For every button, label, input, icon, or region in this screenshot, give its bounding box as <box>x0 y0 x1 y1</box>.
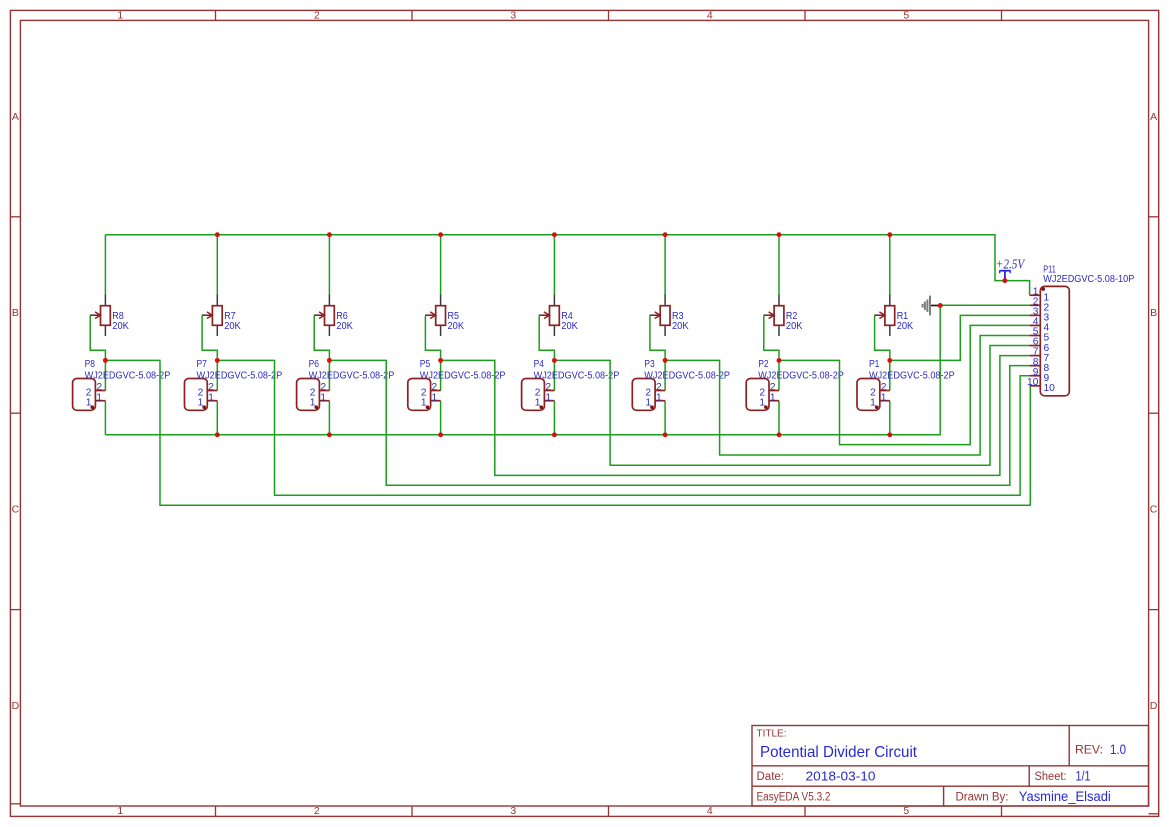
svg-text:1: 1 <box>198 398 204 409</box>
svg-text:B: B <box>1150 307 1157 319</box>
connector P3 <box>632 379 665 411</box>
pin numbers P11 <box>1027 286 1055 394</box>
wire R5 wiper to junction <box>425 316 440 361</box>
svg-text:A: A <box>1150 111 1157 123</box>
resistor R5 <box>425 295 446 337</box>
svg-text:5: 5 <box>903 9 909 21</box>
junction node col 5 <box>438 358 443 363</box>
svg-text:2: 2 <box>314 805 320 817</box>
resistor R4 <box>539 295 560 337</box>
svg-text:1: 1 <box>881 392 887 403</box>
resistor R6 <box>314 295 335 337</box>
pin numbers P5 <box>421 382 438 409</box>
wire R6 wiper to junction <box>314 316 329 361</box>
svg-text:P1: P1 <box>869 359 880 370</box>
svg-text:10: 10 <box>1027 377 1039 388</box>
svg-text:C: C <box>1150 504 1158 516</box>
svg-text:+2.5V: +2.5V <box>996 256 1026 271</box>
svg-text:1: 1 <box>432 392 438 403</box>
resistor R8 <box>90 295 111 337</box>
wire P2 junction to P11 pin 4 <box>779 325 1030 444</box>
svg-text:B: B <box>12 307 19 319</box>
resistor R7 <box>202 295 223 337</box>
wire junction to P1 pin2 <box>889 360 891 390</box>
connector P4 <box>522 379 555 411</box>
svg-text:Date:: Date: <box>757 771 785 783</box>
svg-text:P4: P4 <box>534 359 545 370</box>
junction node ground bus col 3 <box>663 432 668 437</box>
wire P2 pin1 to ground bus <box>778 401 780 435</box>
wire +2.5V top bus <box>105 235 1029 296</box>
wire junction to P2 pin2 <box>778 360 780 390</box>
svg-text:WJ2EDGVC-5.08-2P: WJ2EDGVC-5.08-2P <box>197 370 283 381</box>
svg-text:20K: 20K <box>224 321 241 332</box>
svg-text:WJ2EDGVC-5.08-2P: WJ2EDGVC-5.08-2P <box>309 370 395 381</box>
junction node +2.5V <box>1002 278 1007 283</box>
wire top bus to R7 <box>216 235 218 295</box>
junction node top bus col 3 <box>663 232 668 237</box>
pin numbers P7 <box>198 382 215 409</box>
svg-text:1: 1 <box>645 398 651 409</box>
wire P4 pin1 to ground bus <box>553 401 555 435</box>
pin numbers P3 <box>645 382 662 409</box>
wire P7 pin1 to ground bus <box>216 401 218 435</box>
svg-text:1: 1 <box>117 805 123 817</box>
junction node ground bus col 6 <box>327 432 332 437</box>
junction node top bus col 4 <box>552 232 557 237</box>
connector P1 <box>857 379 890 411</box>
svg-text:REV:: REV: <box>1075 743 1103 757</box>
pin numbers P1 <box>870 382 887 409</box>
wire top bus to R4 <box>553 235 555 295</box>
svg-text:1: 1 <box>96 392 102 403</box>
wire P6 junction to P11 pin 8 <box>329 360 1029 485</box>
wire top bus to R1 <box>889 235 891 295</box>
junction node top bus col 6 <box>327 232 332 237</box>
resistor R1 <box>874 295 895 337</box>
svg-text:1: 1 <box>117 9 123 21</box>
junction node col 2 <box>777 358 782 363</box>
wire R2 wiper to junction <box>764 316 779 361</box>
connector P8 <box>73 379 106 411</box>
wire junction to P7 pin2 <box>216 360 218 390</box>
svg-text:2018-03-10: 2018-03-10 <box>806 769 876 784</box>
svg-text:Yasmine_Elsadi: Yasmine_Elsadi <box>1019 789 1111 804</box>
wire R8 wiper to junction <box>90 316 105 361</box>
svg-text:1: 1 <box>759 398 765 409</box>
svg-text:10: 10 <box>1044 383 1056 394</box>
wire R1 wiper to junction <box>875 316 890 361</box>
svg-text:P5: P5 <box>420 359 431 370</box>
junction node col 3 <box>663 358 668 363</box>
svg-text:TITLE:: TITLE: <box>757 729 787 740</box>
wire top bus to R8 <box>104 235 106 295</box>
wire P4 junction to P11 pin 6 <box>554 346 1029 466</box>
svg-text:P6: P6 <box>309 359 320 370</box>
junction node top bus col 1 <box>887 232 892 237</box>
svg-text:WJ2EDGVC-5.08-2P: WJ2EDGVC-5.08-2P <box>758 370 844 381</box>
svg-text:20K: 20K <box>112 321 129 332</box>
svg-text:1: 1 <box>86 398 92 409</box>
wire top bus to R6 <box>328 235 330 295</box>
svg-text:WJ2EDGVC-5.08-2P: WJ2EDGVC-5.08-2P <box>869 370 955 381</box>
wire junction to P3 pin2 <box>664 360 666 390</box>
pin numbers P6 <box>310 382 327 409</box>
svg-text:C: C <box>12 504 20 516</box>
svg-text:A: A <box>12 111 19 123</box>
connector P2 <box>746 379 779 411</box>
svg-text:WJ2EDGVC-5.08-2P: WJ2EDGVC-5.08-2P <box>534 370 620 381</box>
svg-text:D: D <box>12 700 20 712</box>
wire R7 wiper to junction <box>202 316 217 361</box>
wire top bus to R5 <box>440 235 442 295</box>
wire top bus to R2 <box>778 235 780 295</box>
svg-text:20K: 20K <box>448 321 465 332</box>
svg-text:2: 2 <box>314 9 320 21</box>
wire top bus to R3 <box>664 235 666 295</box>
junction node ground <box>938 303 943 308</box>
connector P7 <box>185 379 218 411</box>
wire P5 pin1 to ground bus <box>440 401 442 435</box>
svg-text:WJ2EDGVC-5.08-2P: WJ2EDGVC-5.08-2P <box>644 370 730 381</box>
svg-text:P2: P2 <box>758 359 769 370</box>
resistor R2 <box>763 295 783 337</box>
power flag +2.5V <box>996 256 1026 280</box>
svg-text:3: 3 <box>510 9 516 21</box>
svg-text:4: 4 <box>707 9 713 21</box>
svg-text:1: 1 <box>870 398 876 409</box>
svg-text:Potential Divider Circuit: Potential Divider Circuit <box>760 744 918 761</box>
wire P3 pin1 to ground bus <box>664 401 666 435</box>
svg-text:WJ2EDGVC-5.08-2P: WJ2EDGVC-5.08-2P <box>420 370 506 381</box>
resistor R3 <box>650 295 671 337</box>
wire P11 pin2 to ground <box>940 304 1029 306</box>
svg-text:1.0: 1.0 <box>1110 742 1126 757</box>
ground <box>923 296 941 316</box>
svg-text:Drawn By:: Drawn By: <box>956 792 1009 804</box>
junction node col 1 <box>887 358 892 363</box>
svg-text:20K: 20K <box>672 321 689 332</box>
svg-text:4: 4 <box>707 805 713 817</box>
svg-text:P3: P3 <box>644 359 655 370</box>
svg-text:WJ2EDGVC-5.08-2P: WJ2EDGVC-5.08-2P <box>85 370 171 381</box>
svg-text:D: D <box>1150 700 1158 712</box>
wire P1 junction to P11 pin 3 <box>890 315 1030 360</box>
wire junction to P5 pin2 <box>440 360 442 390</box>
wire P3 junction to P11 pin 5 <box>665 335 1030 455</box>
svg-text:P8: P8 <box>85 359 96 370</box>
svg-text:1: 1 <box>535 398 541 409</box>
wire junction to P8 pin2 <box>104 360 106 390</box>
svg-text:20K: 20K <box>897 321 914 332</box>
svg-text:Sheet:: Sheet: <box>1035 771 1067 783</box>
svg-text:3: 3 <box>510 805 516 817</box>
connector P5 <box>408 379 441 411</box>
junction node top bus col 5 <box>438 232 443 237</box>
svg-text:1: 1 <box>545 392 551 403</box>
junction node col 4 <box>552 358 557 363</box>
wire R3 wiper to junction <box>650 316 665 361</box>
svg-text:P7: P7 <box>197 359 208 370</box>
svg-text:20K: 20K <box>336 321 353 332</box>
svg-text:1: 1 <box>310 398 316 409</box>
pin numbers P4 <box>535 382 552 409</box>
junction node col 6 <box>327 358 332 363</box>
junction node top bus col 7 <box>215 232 220 237</box>
pin numbers P2 <box>759 382 776 409</box>
wire P8 pin1 to ground bus <box>104 401 106 435</box>
junction node ground bus col 7 <box>215 432 220 437</box>
connector P6 <box>297 379 330 411</box>
junction node col 7 <box>215 358 220 363</box>
pin numbers P8 <box>86 382 103 409</box>
junction node ground bus col 4 <box>552 432 557 437</box>
wire P5 junction to P11 pin 7 <box>441 356 1030 476</box>
svg-text:WJ2EDGVC-5.08-10P: WJ2EDGVC-5.08-10P <box>1043 274 1134 285</box>
wire junction to P6 pin2 <box>328 360 330 390</box>
svg-text:20K: 20K <box>561 321 578 332</box>
connector P11 <box>1030 286 1070 395</box>
wire P7 junction to P11 pin 9 <box>217 360 1029 495</box>
svg-text:1/1: 1/1 <box>1076 769 1091 784</box>
wire P1 pin1 to ground bus <box>889 401 891 435</box>
junction node ground bus col 2 <box>777 432 782 437</box>
svg-text:1: 1 <box>421 398 427 409</box>
svg-text:EasyEDA V5.3.2: EasyEDA V5.3.2 <box>757 792 831 804</box>
svg-text:1: 1 <box>208 392 214 403</box>
svg-text:1: 1 <box>656 392 662 403</box>
svg-text:1: 1 <box>320 392 326 403</box>
wire R4 wiper to junction <box>539 316 554 361</box>
svg-text:1: 1 <box>770 392 776 403</box>
wire ground bus <box>105 306 940 435</box>
wire junction to P4 pin2 <box>553 360 555 390</box>
wire P8 junction to P11 pin 10 <box>105 360 1030 505</box>
wire P6 pin1 to ground bus <box>328 401 330 435</box>
junction node ground bus col 5 <box>438 432 443 437</box>
junction node ground bus col 1 <box>887 432 892 437</box>
svg-text:20K: 20K <box>786 321 803 332</box>
junction node col 8 <box>103 358 108 363</box>
junction node top bus col 2 <box>777 232 782 237</box>
